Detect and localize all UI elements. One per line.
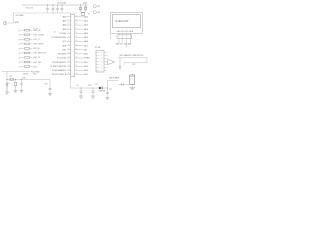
- OLED module inner: [112, 15, 140, 28]
- wire bottom-left long: [2, 71, 30, 73]
- switch K5: [19, 48, 33, 50]
- wire net left drop: [119, 58, 121, 66]
- svg-text:R10: R10: [23, 78, 26, 80]
- svg-text:7: 7: [101, 70, 102, 72]
- svg-text:GND VCC SCL SDA: GND VCC SCL SDA: [117, 30, 134, 33]
- pin U1 left 3: [63, 24, 72, 27]
- svg-text:15: 15: [68, 73, 70, 75]
- svg-text:P3.5/T1/OLED_A: P3.5/T1/OLED_A: [52, 73, 67, 76]
- pin OLED 1: [118, 33, 120, 35]
- capacitor C11 drop: [106, 88, 109, 97]
- pin U1 left 2: [63, 20, 72, 23]
- switch SW1: [118, 83, 130, 86]
- pin U1 right 10: [75, 53, 89, 56]
- svg-text:P3.3/INT1/KEYPD2: P3.3/INT1/KEYPD2: [50, 66, 67, 68]
- pin U1 right 9: [75, 48, 88, 51]
- pin U1 left 7: [63, 40, 72, 43]
- svg-text:A12: A12: [84, 73, 87, 76]
- ground under C9: [79, 96, 83, 98]
- IC U1 body: [71, 15, 75, 77]
- svg-text:KEY_SEL: KEY_SEL: [34, 62, 42, 64]
- svg-text:24: 24: [76, 40, 78, 42]
- wire U1 VCC top: [70, 13, 72, 15]
- wire LED to gnd: [6, 86, 8, 92]
- capacitor C10: [92, 88, 95, 97]
- capacitor C1: [46, 5, 49, 14]
- pin U1 left 4: [63, 28, 72, 31]
- svg-text:AD5: AD5: [84, 36, 88, 39]
- svg-text:SPK: SPK: [15, 22, 20, 24]
- svg-text:KEY_LT: KEY_LT: [34, 39, 41, 41]
- svg-text:29: 29: [76, 20, 78, 22]
- pin U1 left 5: [59, 32, 71, 35]
- svg-text:23: 23: [76, 44, 78, 46]
- svg-text:25: 25: [76, 36, 78, 38]
- svg-text:P3.1/TXD2: P3.1/TXD2: [57, 58, 66, 60]
- svg-text:AD0: AD0: [84, 16, 88, 19]
- pin J1 1: [96, 52, 108, 54]
- svg-text:AD2: AD2: [84, 24, 88, 27]
- wire after diode: [102, 87, 107, 89]
- pin U1 right 1: [75, 15, 88, 18]
- wire xtal right drop: [85, 5, 86, 13]
- svg-text:AD0: AD0: [63, 16, 67, 19]
- pin U1 left 15: [52, 73, 72, 76]
- wire net lower: [124, 62, 147, 64]
- ground arrow right: [119, 66, 121, 69]
- svg-text:D1: D1: [96, 84, 98, 86]
- wire IC bottom down: [70, 77, 72, 89]
- svg-text:18: 18: [76, 65, 78, 67]
- svg-text:C9: C9: [77, 85, 79, 87]
- pin U1 right 11: [75, 57, 90, 60]
- svg-text:21: 21: [76, 53, 78, 55]
- svg-text:AD7: AD7: [84, 44, 88, 47]
- svg-text:SCL SDA VCC GND 3V3 5V: SCL SDA VCC GND 3V3 5V: [120, 54, 145, 57]
- svg-text:P3.4/T0/BEEP12: P3.4/T0/BEEP12: [52, 70, 66, 72]
- wire switch feed: [108, 80, 119, 82]
- ground g5: [106, 97, 110, 99]
- pin U1 left 13: [50, 65, 72, 68]
- pin U1 left 1: [63, 15, 72, 18]
- battery BT1: [130, 74, 135, 85]
- pin U1 left 6: [52, 36, 72, 39]
- svg-text:KEY_A: KEY_A: [34, 47, 41, 50]
- pin U1 right 8: [75, 44, 88, 47]
- svg-text:P1 ISP: P1 ISP: [95, 47, 101, 49]
- svg-text:O-LED 0.96”: O-LED 0.96”: [115, 20, 129, 23]
- svg-text:28: 28: [76, 24, 78, 26]
- capacitor C4: [61, 5, 64, 14]
- pin U1 left 14: [52, 69, 71, 72]
- pin J1 7: [96, 70, 108, 72]
- svg-text:13: 13: [68, 65, 70, 67]
- pin U1 right 15: [75, 73, 88, 76]
- node +5 junction: [7, 79, 8, 80]
- pin U1 right 6: [75, 36, 88, 39]
- svg-text:12: 12: [68, 61, 70, 63]
- wire bottom bus: [71, 87, 100, 89]
- svg-text:2: 2: [101, 55, 102, 57]
- wire OLED pin 3 down: [126, 38, 128, 47]
- svg-text:PSEN: PSEN: [84, 58, 90, 60]
- svg-text:+5V IN: +5V IN: [23, 73, 29, 75]
- switch K9: [19, 66, 33, 68]
- svg-text:AD2: AD2: [63, 24, 67, 27]
- LED D3: [6, 82, 10, 86]
- wire net right drop: [146, 58, 148, 63]
- pin U1 right 4: [75, 28, 88, 31]
- svg-text:30: 30: [76, 15, 78, 17]
- ground under battery: [129, 87, 135, 89]
- ground g3: [20, 91, 24, 93]
- switch K4: [19, 43, 33, 45]
- capacitor C6: [84, 7, 86, 10]
- svg-text:P1.4/SS: P1.4/SS: [59, 33, 67, 35]
- pin U1 right 13: [75, 65, 88, 68]
- capacitor C5: [79, 7, 81, 10]
- power flag P1: [93, 5, 96, 8]
- svg-text:AD6: AD6: [84, 40, 88, 43]
- svg-text:27: 27: [76, 28, 78, 30]
- wire GND rail: [14, 12, 78, 14]
- svg-text:P1.5/MOSI/CEX2: P1.5/MOSI/CEX2: [52, 37, 67, 39]
- svg-text:B1: B1: [98, 6, 100, 8]
- resistor R1 drop: [14, 79, 16, 91]
- switch K7: [19, 57, 33, 59]
- pin OLED 2: [122, 33, 124, 35]
- wire vertical to GND rail: [13, 13, 15, 23]
- svg-text:S1-S8: S1-S8: [33, 28, 38, 30]
- pin U1 right 7: [75, 40, 88, 43]
- svg-text:14: 14: [68, 69, 70, 71]
- pin U1 left 11: [57, 57, 71, 60]
- svg-text:D2: D2: [10, 76, 12, 78]
- pin U1 left 9: [63, 48, 72, 51]
- pin J1 4: [96, 61, 108, 63]
- svg-text:C10: C10: [88, 85, 91, 87]
- ground g1: [5, 92, 9, 94]
- svg-text:KEY_DOWN: KEY_DOWN: [34, 34, 45, 36]
- ground g4: [48, 93, 52, 95]
- pin U1 right 5: [75, 32, 88, 35]
- svg-text:KEY_ST: KEY_ST: [34, 57, 42, 59]
- pin J1 6: [96, 67, 108, 69]
- svg-text:A13: A13: [84, 69, 87, 72]
- svg-text:AD1: AD1: [84, 20, 88, 23]
- wire speaker to bus: [6, 22, 13, 24]
- switch K3: [19, 39, 33, 41]
- svg-text:P3.0/RXD: P3.0/RXD: [58, 54, 67, 56]
- wire +5 horizontal: [7, 79, 50, 81]
- diode D1: [99, 87, 102, 90]
- svg-text:A15: A15: [84, 61, 87, 64]
- svg-text:1: 1: [101, 52, 102, 54]
- svg-text:11: 11: [68, 57, 70, 59]
- svg-text:22: 22: [76, 48, 78, 50]
- wire OLED left edge: [110, 33, 112, 39]
- wire VCC rail: [22, 4, 88, 6]
- svg-text:BT: BT: [110, 89, 112, 91]
- capacitor C9: [80, 88, 83, 97]
- svg-text:KEY_SELECT2: KEY_SELECT2: [34, 53, 47, 55]
- svg-text:AD4: AD4: [84, 32, 88, 35]
- pin J1 3: [96, 58, 108, 60]
- wire battery down: [131, 84, 133, 87]
- capacitor C3: [56, 5, 59, 14]
- wire OLED pin 1 down: [118, 38, 120, 43]
- svg-text:KEY_RIGHT: KEY_RIGHT: [34, 44, 45, 46]
- svg-text:GND VCC SCL SDA: GND VCC SCL SDA: [116, 43, 132, 46]
- svg-text:AD1: AD1: [63, 20, 67, 23]
- svg-text:26: 26: [76, 32, 78, 34]
- switch K1: [19, 29, 33, 31]
- svg-text:AD3: AD3: [84, 28, 88, 31]
- pin U1 left 12: [52, 61, 71, 64]
- capacitor C8 drop: [49, 80, 52, 94]
- power flag P2: [93, 11, 96, 14]
- pin OLED 3: [126, 33, 128, 35]
- svg-text:17: 17: [76, 69, 78, 71]
- node battery junction: [107, 88, 108, 89]
- pin U1 left 10: [58, 53, 72, 56]
- wire OLED pin 2 down: [122, 38, 124, 43]
- svg-text:B2: B2: [98, 12, 100, 14]
- speaker LS1: [3, 21, 6, 25]
- svg-text:+5V GND: +5V GND: [15, 15, 24, 17]
- svg-text:16: 16: [76, 73, 78, 75]
- svg-text:6: 6: [101, 67, 102, 69]
- svg-text:4: 4: [101, 61, 102, 63]
- pin J1 2: [96, 55, 108, 57]
- switch K2: [19, 34, 33, 36]
- switch K8: [19, 61, 33, 63]
- ground g2: [14, 91, 18, 93]
- pin U1 right 14: [75, 69, 88, 72]
- crystal Y1: [81, 12, 86, 15]
- svg-text:P3.2/INT0/KEY1: P3.2/INT0/KEY1: [52, 62, 66, 64]
- svg-text:20: 20: [76, 57, 78, 59]
- ground under C10: [91, 96, 95, 98]
- wire OLED pin 4 down: [129, 38, 131, 43]
- capacitor C2: [52, 5, 55, 14]
- pin U1 right 3: [75, 24, 88, 27]
- wire lower drop: [123, 63, 125, 65]
- svg-text:Y1: Y1: [88, 13, 90, 15]
- pin J1 5: [96, 64, 108, 66]
- svg-text:19: 19: [76, 61, 78, 63]
- svg-text:AD3: AD3: [63, 28, 67, 31]
- OLED header J2: [117, 35, 132, 38]
- pin U1 right 12: [75, 61, 88, 64]
- svg-text:C1-C4 104: C1-C4 104: [57, 2, 66, 4]
- OLED module outer: [111, 13, 143, 34]
- svg-text:1N4148: 1N4148: [99, 91, 105, 93]
- pin OLED 4: [129, 33, 131, 35]
- connector J1: [96, 51, 104, 73]
- capacitor C7 drop: [20, 79, 23, 91]
- svg-text:SW POWER: SW POWER: [109, 77, 120, 79]
- pin U1 right 2: [75, 20, 88, 23]
- svg-text:SCL: SCL: [63, 41, 67, 43]
- svg-text:10: 10: [68, 53, 70, 55]
- switch K6: [19, 52, 33, 54]
- svg-text:5: 5: [101, 64, 102, 66]
- arrow to OLED: [108, 59, 115, 64]
- wire left vertical: [6, 72, 8, 93]
- wire net top: [118, 57, 147, 59]
- wire xtal left drop: [80, 5, 81, 13]
- svg-text:VCC 5V: VCC 5V: [26, 7, 34, 9]
- pin U1 left 8: [62, 44, 71, 47]
- wire up to switch: [107, 81, 109, 89]
- diode D2: [10, 78, 14, 81]
- svg-text:A14: A14: [84, 65, 87, 68]
- svg-text:3: 3: [101, 58, 102, 60]
